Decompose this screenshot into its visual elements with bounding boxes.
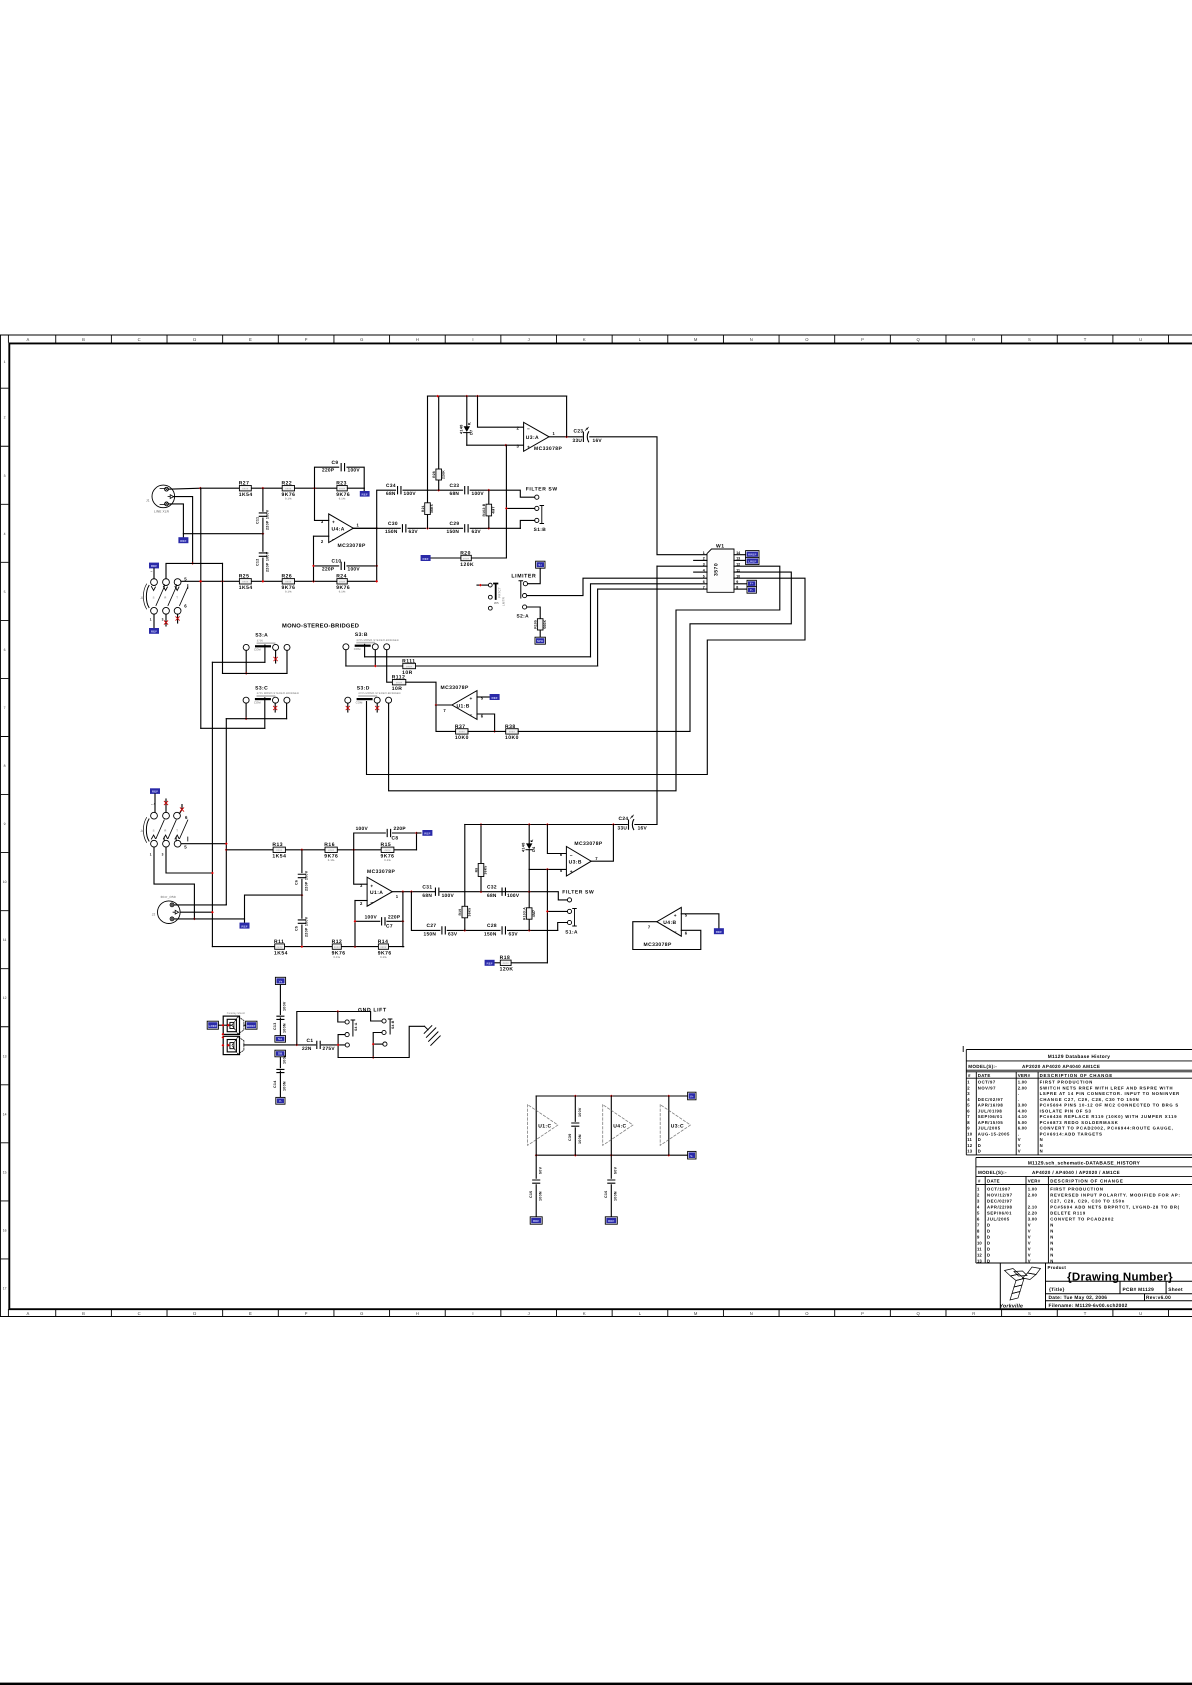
svg-text:U4:B: U4:B [663,920,676,926]
svg-text:U3:B: U3:B [569,860,582,866]
svg-text:N: N [1050,1258,1054,1263]
svg-text:S1:B: S1:B [534,527,547,533]
svg-text:APR/22/98: APR/22/98 [987,1204,1013,1209]
svg-text:R12: R12 [332,939,343,945]
svg-text:G: G [360,337,363,342]
svg-text:220P: 220P [322,468,335,474]
svg-text:6.00: 6.00 [1018,1126,1028,1131]
svg-text:R16: R16 [324,842,335,848]
svg-text:####: #### [463,557,470,560]
svg-text:M: M [694,1311,698,1316]
svg-text:REF: REF [241,924,247,928]
wire U1:B output [436,704,452,706]
wire U3:A pin2 [478,396,524,427]
svg-text:D: D [987,1240,991,1245]
port PAD at R18 [485,960,495,966]
node C11 top junction [262,487,265,490]
svg-text:REF: REF [152,790,158,794]
wire R37 R38 link [468,730,506,732]
wire S3:C com drop [264,698,266,729]
shield symbol lower [223,1036,244,1054]
resistor R15 9K76 [381,847,394,852]
svg-text:9: 9 [4,822,6,826]
svg-text:R15: R15 [381,842,392,848]
svg-text:V: V [1028,1246,1031,1251]
resistor R23 9K76 [337,486,347,491]
svg-text:1.00: 1.00 [1028,1186,1038,1191]
port LREF below J2 [240,923,250,929]
port REF at U4:B [714,928,724,934]
svg-text:MODEL(S):-: MODEL(S):- [968,1064,997,1069]
svg-text:REVERSED INPUT POLARITY. MODIF: REVERSED INPUT POLARITY. MODIFIED FOR AP… [1050,1192,1180,1197]
svg-text:PCB# M1129: PCB# M1129 [1123,1287,1155,1293]
svg-text:22N: 22N [302,1046,312,1052]
svg-text:3705 MONO-STEREO-BRIDGED: 3705 MONO-STEREO-BRIDGED [358,692,400,695]
svg-text:63V: 63V [472,529,482,535]
svg-text:R102:B: R102:B [482,503,486,516]
port V- rail [688,1151,696,1159]
svg-text:R21: R21 [421,505,425,512]
svg-text:COM: COM [356,700,363,704]
svg-text:####: #### [276,849,283,852]
wire J2 pin3 line [174,895,302,919]
svg-text:−: − [527,428,530,433]
svg-text:GND LIFT: GND LIFT [358,1008,387,1014]
svg-text:#: # [978,1179,981,1184]
svg-text:APR/15/05: APR/15/05 [978,1120,1004,1125]
svg-text:V: V [1028,1252,1031,1257]
svg-text:P: P [861,337,864,342]
wire J3 ring up [166,563,223,578]
svg-text:REF: REF [716,930,722,934]
resistor R24 9K76 [337,579,347,584]
svg-text:W5: W5 [494,601,499,605]
port RREF right of shield [246,1021,257,1029]
wire filter column 2 [546,869,548,962]
connector J2 XLR 3647_OS0 [158,901,181,924]
svg-text:0.1%: 0.1% [285,497,292,500]
wire S3:D pin1 nc [347,703,349,712]
svg-text:+: + [527,446,530,451]
svg-text:S4:B: S4:B [391,1020,395,1029]
svg-text:+: + [370,885,373,890]
diode D7 4148 [466,396,468,426]
svg-text:Sheet: Sheet [1168,1287,1183,1293]
svg-text:–: – [151,570,153,574]
wire U3:A feedback top [428,395,567,397]
wire U4:A output [353,527,376,529]
wire U4:A pin2 column [313,536,315,581]
svg-text:MC33078P: MC33078P [367,869,395,875]
svg-text:50V: 50V [539,1166,543,1174]
svg-text:SWITCH NETS RREF WITH LREF AND: SWITCH NETS RREF WITH LREF AND RSPRE WIT… [1040,1085,1174,1090]
svg-text:J1: J1 [146,499,150,503]
svg-text:SEP/06/01: SEP/06/01 [978,1114,1003,1119]
node S3:A pin1 junction [245,672,248,675]
svg-text:100V: 100V [365,915,378,921]
op-amp U4:A [329,514,354,543]
svg-text:275V: 275V [323,1046,336,1052]
svg-text:63V: 63V [448,932,458,938]
svg-text:N: N [1040,1143,1044,1148]
svg-text:−: − [332,538,335,543]
earth ground symbol [424,1026,440,1046]
svg-text:−: − [470,714,473,719]
svg-text:####: #### [339,581,346,584]
wire C9 feedback loop [315,467,339,488]
svg-text:220K: 220K [441,470,445,479]
svg-text:10K0: 10K0 [505,735,519,741]
svg-text:220P: 220P [394,826,407,832]
svg-text:V: V [1028,1228,1031,1233]
svg-text:R25: R25 [239,574,250,580]
svg-text:R111: R111 [402,658,415,664]
svg-text:U1:B: U1:B [457,704,470,710]
svg-text:1: 1 [703,551,705,555]
resistor R27 1K54 [239,486,251,491]
svg-text:36K5: 36K5 [484,866,488,875]
svg-text:R: R [972,1311,975,1316]
svg-text:JUL/01/98: JUL/01/98 [978,1108,1003,1113]
svg-text:COM: COM [254,700,261,704]
node V+ rail junctions [574,1095,577,1098]
svg-text:13: 13 [3,1054,7,1058]
svg-text:C1: C1 [307,1038,314,1044]
svg-text:4.10: 4.10 [1018,1114,1028,1119]
svg-text:MODEL(S):-: MODEL(S):- [978,1170,1007,1175]
wire J2 pin1 line [181,911,213,913]
wire J3 sleeve to REF [153,614,155,628]
table schematic DATABASE_HISTORY frame [976,1158,1192,1264]
svg-text:AP2020 AP4020 AP4040 AM1CE: AP2020 AP4020 AP4040 AM1CE [1022,1064,1100,1069]
wire C27 C28 line [411,892,440,931]
svg-text:68N: 68N [487,893,497,899]
svg-text:560K: 560K [543,620,547,629]
svg-text:####: #### [242,581,249,584]
resistor R37 10K0 [456,729,468,734]
svg-text:####: #### [328,849,335,852]
wire U3:B output [591,825,613,862]
node R102 top junction [487,489,490,492]
svg-text:K: K [583,337,586,342]
svg-text:S3:C: S3:C [255,686,268,692]
svg-text:100N: 100N [283,1081,287,1091]
svg-text:−: − [570,854,573,859]
wire J2 pin2 line [174,903,226,906]
port V- below C14 [276,1097,285,1104]
svg-text:3.00: 3.00 [1018,1103,1028,1108]
svg-text:MC33078P: MC33078P [441,685,469,691]
port V+ above C13 [275,977,285,984]
svg-text:U1:A: U1:A [370,890,383,896]
svg-text:J4: J4 [140,829,144,833]
wire output to R37 [436,705,456,731]
svg-text:{Title}: {Title} [1049,1287,1065,1293]
wire S3:C com line [201,727,265,729]
resistor R22 9K76 [282,486,294,491]
op-amp U3:B [566,847,591,877]
svg-text:B: B [82,1311,85,1316]
svg-text:S: S [1028,1311,1031,1316]
bottom black bar [0,1683,1192,1685]
svg-text:####: #### [384,849,391,852]
svg-text:R13: R13 [272,842,283,848]
op-amp power U1:C [535,1096,537,1155]
svg-text:1: 1 [150,852,152,856]
svg-text:SA: SA [278,1037,283,1041]
wire C39 column [574,1096,576,1121]
svg-text:S4:A: S4:A [354,1022,358,1031]
svg-text:R: R [972,337,975,342]
svg-text:R22: R22 [282,481,293,487]
svg-text:D: D [978,1149,982,1154]
svg-text:100V: 100V [348,468,361,474]
node shield stack junctions [222,1033,225,1036]
svg-text:R38: R38 [505,724,516,730]
wire shield to RREF [244,1024,245,1026]
svg-text:S: S [153,830,155,833]
svg-text:R: R [164,830,166,833]
wire S3:D pin3 down handled above [0,0,1,1]
svg-text:Yorkville: Yorkville [1000,1304,1024,1310]
wire S3:B pin3 to R112 [387,650,393,682]
svg-text:100N: 100N [283,1023,287,1033]
svg-text:N: N [1050,1240,1054,1245]
svg-text:B: B [82,337,85,342]
svg-text:C13: C13 [273,1023,277,1031]
capacitor C12 220P 100V vertical [262,534,264,552]
svg-text:10: 10 [3,880,7,884]
svg-text:REF: REF [180,539,186,543]
node V- rail junctions [535,1154,538,1157]
svg-text:100V: 100V [356,826,369,832]
svg-text:C27, C28, C29, C30 TO 150n: C27, C28, C29, C30 TO 150n [1050,1198,1125,1203]
svg-text:S: S [153,597,155,600]
svg-text:FILTER SW: FILTER SW [562,889,594,895]
shield symbol upper [223,1016,244,1034]
svg-text:FIRST PRODUCTION: FIRST PRODUCTION [1050,1186,1103,1191]
wire S4:A branch [338,1012,345,1023]
capacitor C13 100N 100V vertical [279,985,281,1014]
svg-text:100N: 100N [578,1134,582,1144]
wire R112 to U1:B output [406,682,436,705]
svg-text:U: U [1139,1311,1142,1316]
svg-text:D: D [987,1246,991,1251]
node R24 output junction [375,580,378,583]
svg-text:220P: 220P [388,915,401,921]
svg-text:.: . [1018,1097,1019,1102]
svg-text:DATE: DATE [978,1073,991,1078]
svg-text:####: #### [459,731,466,734]
svg-text:C24: C24 [619,816,629,822]
table2 text rows [977,1161,1181,1264]
svg-text:####: #### [285,581,292,584]
svg-text:68N: 68N [422,893,432,899]
svg-text:D: D [987,1252,991,1257]
wire J3 pin3 nc [165,614,167,626]
svg-text:0.1%: 0.1% [339,591,346,594]
svg-text:####: #### [503,962,510,965]
capacitor C28 150N 63V [502,927,505,934]
capacitor C33 68N 100V [465,487,468,494]
svg-text:13: 13 [967,1149,972,1154]
svg-text:LIMITER: LIMITER [511,574,536,580]
svg-text:11: 11 [967,1137,972,1142]
svg-text:{Drawing Number}: {Drawing Number} [1067,1272,1173,1284]
svg-text:3.00: 3.00 [1028,1216,1038,1221]
svg-text:N: N [1040,1137,1044,1142]
svg-text:1K54: 1K54 [274,950,288,956]
svg-text:AP4020 / AP4040 / AP2020 / AM1: AP4020 / AP4040 / AP2020 / AM1CE [1032,1170,1120,1175]
svg-text:C27: C27 [427,923,437,929]
port REF below C15 [530,1217,542,1224]
node C6 top junction [301,848,304,851]
node top wire junctions [436,395,439,398]
svg-text:V-: V- [690,1154,693,1158]
wire feedback right corner [566,396,568,437]
svg-text:150N: 150N [385,529,398,535]
svg-text:4: 4 [4,532,6,536]
node R103 C32 junction [528,890,531,893]
svg-text:1: 1 [150,618,152,622]
svg-text:C8: C8 [392,835,399,841]
svg-text:REF: REF [608,1219,614,1223]
svg-text:C31: C31 [422,884,432,890]
svg-text:R11: R11 [274,939,284,945]
svg-text:.: . [1018,1091,1019,1096]
svg-text:CONVERT TO PCAD2002, PC#6944:R: CONVERT TO PCAD2002, PC#6944:ROUTE GAUGE… [1040,1126,1174,1131]
wire V+ rail [536,1095,688,1097]
svg-text:F-: F- [750,588,753,592]
resistor R11 1K54 [275,944,285,949]
svg-text:150N: 150N [447,529,460,535]
svg-text:2.10: 2.10 [1028,1204,1038,1209]
switch S4:B [382,1019,386,1023]
wire line A to W1 pin6 [365,656,591,658]
svg-text:N: N [1050,1234,1054,1239]
svg-text:V: V [1028,1234,1031,1239]
wire J3 pin6 nc [177,614,179,623]
svg-text:+: + [674,914,677,919]
wire S3:A com drop [264,645,266,662]
svg-text:5.00: 5.00 [1018,1120,1028,1125]
wire S3:A pin1 down [245,650,247,673]
svg-text:PC#5694 PINS 10-12 OF MC2 CONN: PC#5694 PINS 10-12 OF MC2 CONNECTED TO B… [1040,1103,1179,1108]
svg-text:N: N [1050,1246,1054,1251]
op-amp power U4:C [610,1096,612,1155]
svg-text:15: 15 [3,1170,7,1174]
svg-text:REF: REF [362,492,368,496]
svg-text:REF: REF [422,557,428,561]
resistor R38 10K0 [506,729,519,734]
resistor R14 9K76 [378,944,388,949]
svg-text:F+: F+ [750,582,754,586]
svg-text:T: T [1084,1311,1087,1316]
svg-text:####: #### [285,488,292,491]
resistor R21 vertical 36K5 [427,396,429,503]
svg-text:Product: Product [1048,1265,1067,1270]
svg-text:V+: V+ [690,1095,694,1099]
capacitor C7 220P 100V [382,918,385,925]
svg-text:R24: R24 [336,574,347,580]
node pin3 filter junction [505,444,508,447]
node ring junction [191,562,194,565]
wire U4:A pin2 input [314,535,329,537]
capacitor C14 100N 100V vertical [279,1057,281,1067]
svg-text:68N: 68N [386,491,396,497]
wire U1:A pin2 [355,900,367,902]
svg-text:C: C [138,337,141,342]
connector W1 3570 [707,549,734,592]
wire filter column [505,445,508,558]
wire W1 pin2 stub [694,559,707,561]
wire V- rail [536,1154,688,1156]
svg-text:C5: C5 [295,926,299,931]
svg-text:R27: R27 [239,481,250,487]
capacitor C23 33U 16V [583,432,588,442]
port REF below J3 [149,628,159,634]
capacitor C34 68N 100V [403,489,428,491]
capacitor C31 68N 100V [440,891,547,893]
svg-text:S3:A: S3:A [255,633,268,639]
svg-text:N: N [750,337,753,342]
svg-text:R: R [164,597,166,600]
svg-text:REF: REF [151,630,157,634]
svg-text:REF: REF [533,1219,539,1223]
node col A junction [199,580,202,583]
svg-text:LREF: LREF [748,559,756,563]
wire U3:B feedback top [465,824,628,826]
svg-text:0.1%: 0.1% [339,497,346,500]
svg-text:– 4: – 4 [151,802,156,806]
svg-text:####: #### [277,946,284,949]
svg-text:LSPRE AT 14 PIN CONNECTOR. INP: LSPRE AT 14 PIN CONNECTOR. INPUT TO NONI… [1040,1091,1180,1096]
svg-text:63V: 63V [409,529,419,535]
border frame ruler strips [0,335,1192,1317]
svg-text:N: N [1050,1222,1054,1227]
wire S4:A pin2 jog [338,1035,345,1058]
svg-text:2.20: 2.20 [1028,1210,1038,1215]
wire R23 to BREF [363,488,365,491]
svg-text:####: #### [339,488,346,491]
wire S4:B pin2 jog [373,1033,382,1058]
wire S4:B pin3 link [373,1043,383,1045]
connector J3 TRS jack [153,568,155,578]
svg-text:8: 8 [4,764,6,768]
svg-text:MC33078P: MC33078P [534,446,562,452]
port LREF at C8 [422,830,432,836]
wire net left col B S3:A com to R11 [211,662,213,946]
svg-text:D: D [987,1228,991,1233]
svg-text:120K: 120K [460,562,474,568]
svg-text:C6: C6 [295,880,299,885]
svg-text:R19: R19 [458,909,462,916]
svg-text:Faraday Shield: Faraday Shield [227,1012,246,1015]
node C27 C28 junctions [463,929,466,932]
wire J4 pin5 line [181,843,226,845]
svg-text:C11: C11 [256,517,260,524]
svg-text:10: 10 [967,1131,972,1136]
svg-text:120K: 120K [500,967,514,973]
svg-text:F: F [305,1311,308,1316]
svg-text:220P 100V: 220P 100V [265,509,269,530]
svg-text:S+: S+ [538,563,542,567]
svg-text:−: − [370,901,373,906]
svg-text:####: #### [406,665,413,668]
op-amp power U3:C [668,1096,670,1155]
wire J4 tip nc stub [180,805,183,814]
svg-text:DELETE R119: DELETE R119 [1050,1210,1086,1215]
